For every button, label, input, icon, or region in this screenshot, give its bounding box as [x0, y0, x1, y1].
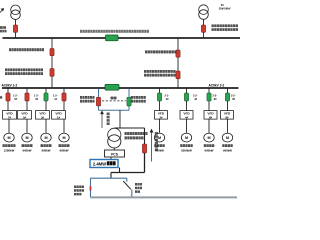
svg-text:2-2-: 2-2- [213, 93, 218, 97]
blue stub to switch 2 [126, 178, 128, 181]
VFD box 5# [18, 111, 32, 120]
wire between left incomer breakers [51, 56, 53, 69]
motor M 1# [59, 133, 69, 142]
wire breaker to VFD 5# [26, 101, 28, 111]
bus AC6kV 1-2 [2, 87, 105, 89]
wire right incomer to bus 2-2 [177, 79, 179, 88]
svg-text:1#: 1# [57, 115, 61, 119]
svg-text:7#: 7# [8, 115, 12, 119]
black drop to blue loop [110, 173, 112, 179]
VFD box 6# [204, 111, 217, 120]
svg-text:M: M [158, 136, 161, 140]
svg-text:1-2-: 1-2- [13, 93, 18, 97]
bypass breaker (red) on blue riser [96, 97, 100, 106]
wire breaker to VFD 4# [186, 101, 188, 111]
feeder breaker 2-2-6# [207, 93, 211, 101]
35kV bus tie switch (green) [106, 35, 119, 41]
svg-text:M: M [44, 136, 47, 140]
svg-text:900kW: 900kW [223, 148, 232, 152]
svg-text:AC6kV 1-2: AC6kV 1-2 [2, 84, 18, 88]
feeder breaker 2-2-8# [225, 93, 229, 101]
transformer T2 (2# 35kV/6kV) [199, 5, 209, 19]
wire 35kV bus to left incomer breaker A [51, 38, 53, 49]
wire bus to feeder breaker 8# [227, 88, 229, 93]
wire PCS to battery [110, 157, 112, 160]
svg-text:1-2-: 1-2- [34, 93, 39, 97]
motor M 8# [222, 133, 232, 142]
motor label 4# line1 [180, 144, 193, 147]
motor label 1# line1 [59, 144, 70, 147]
label text left of T1 breaker line2 [0, 30, 7, 33]
svg-text:2.4MW: 2.4MW [93, 162, 106, 167]
blue riser to bus 2-2 [128, 89, 130, 97]
blue riser below red bypass breaker [98, 106, 100, 110]
text: source of left incomer (6kV) [9, 48, 44, 51]
wire bus to feeder breaker 6# [208, 88, 210, 93]
battery string breaker (red) [142, 144, 146, 153]
up arrow (discharge direction) [150, 129, 153, 161]
cut-off feeder label at left edge [0, 96, 2, 98]
wire bus to feeder breaker 4# [186, 88, 188, 93]
switch2 label line1 [135, 183, 142, 186]
breaker left incomer A [50, 49, 54, 56]
wire VFD 5# to motor [26, 119, 28, 133]
svg-text:900kW: 900kW [204, 148, 213, 152]
svg-text:900kW: 900kW [41, 148, 50, 152]
svg-text:2#: 2# [159, 115, 163, 119]
wire breaker to VFD 8# [227, 101, 229, 111]
svg-text:M: M [207, 136, 210, 140]
battery box bottom terminal wire [119, 168, 121, 173]
annotation right of T2 breaker line2 [212, 28, 239, 31]
svg-text:1-2-: 1-2- [53, 93, 58, 97]
breaker left incomer B [50, 69, 54, 77]
svg-text:M: M [226, 136, 229, 140]
wire T2 breaker to 35kV bus [203, 32, 205, 38]
wire T1 breaker to 35kV bus [15, 32, 17, 38]
switch2 label line2 [135, 187, 142, 190]
annotation above 35kV bus tie [80, 30, 149, 33]
motor M 7# [4, 133, 14, 142]
svg-text:PCS: PCS [111, 152, 119, 156]
T3 annotation line1 [125, 132, 148, 135]
motor M 4# [181, 133, 191, 142]
breaker right incomer A [176, 50, 180, 57]
bottom return line [91, 196, 238, 198]
label text left of T1 breaker line1 [0, 26, 6, 29]
wire breaker to VFD 6# [208, 101, 210, 111]
wire between right incomer breakers [177, 57, 179, 71]
blue loop top edge [91, 177, 127, 179]
feeder breaker 1-2-1# [62, 93, 66, 101]
dashed tie indication [102, 100, 126, 102]
bottom horizontal black wire [111, 172, 145, 174]
wire junction horizontal [114, 127, 144, 129]
motor M 2# [154, 133, 164, 142]
blue bottom link of bypass [99, 109, 130, 111]
svg-text:M: M [25, 136, 28, 140]
annotation right of T2 breaker line1 [212, 24, 239, 27]
battery box 2.4MW [90, 160, 118, 168]
bypass breaker (green) on blue riser [127, 97, 131, 106]
wire VFD 2# to motor [159, 119, 161, 133]
wire bus to feeder breaker 3# [45, 88, 47, 93]
svg-text:2-2-: 2-2- [193, 93, 198, 97]
tie text above dashes [111, 97, 117, 100]
VFD box 7# [3, 111, 17, 120]
svg-text:AC6kV 2-2: AC6kV 2-2 [209, 84, 225, 88]
disconnect switch 1 (red mark) [90, 186, 92, 190]
wire VFD 8# to motor [227, 119, 229, 133]
wire breaker to VFD 1# [63, 101, 65, 111]
wire 35kV bus to right incomer breaker A [177, 38, 179, 50]
wire T2 to breaker [203, 19, 205, 25]
svg-text:M: M [7, 136, 10, 140]
disconnect switch 2 blade [123, 181, 131, 189]
motor label 2# line1 [154, 144, 165, 147]
svg-text:2-2-: 2-2- [231, 93, 236, 97]
svg-text:1280kW: 1280kW [4, 148, 15, 152]
wire breaker to VFD 7# [7, 101, 9, 111]
6kV bus tie switch (green) [105, 84, 119, 90]
wire bus to feeder breaker 1# [63, 88, 65, 93]
annotation right of green bypass breaker line2 [131, 100, 146, 103]
VFD box 8# [221, 111, 234, 120]
wire bus to feeder breaker 7# [7, 88, 9, 93]
wire breaker to VFD 3# [45, 101, 47, 111]
wire VFD 4# to motor [186, 119, 188, 133]
motor M 5# [22, 133, 32, 142]
breaker right incomer B [176, 71, 180, 79]
svg-text:900kW: 900kW [59, 148, 68, 152]
text: right incomer note line2 [144, 74, 176, 77]
wire breaker to VFD 2# [159, 101, 161, 111]
wire bus to feeder breaker 2# [159, 88, 161, 93]
svg-text:2#: 2# [221, 3, 224, 7]
VFD box 1# [52, 111, 66, 120]
wire VFD 1# to motor [63, 119, 65, 133]
feeder breaker 1-2-5# [25, 93, 29, 101]
transformer T1 (1# 35kV main) [11, 5, 21, 20]
feeder breaker 2-2-2# [157, 93, 161, 101]
vertical text beside discharge arrow [155, 132, 158, 151]
motor label 6# line1 [204, 144, 215, 147]
VFD box 4# [180, 111, 193, 120]
battery box CJK chars [107, 161, 116, 165]
bus AC6kV 2-2 [119, 87, 239, 89]
text: right incomer note line1 [144, 70, 176, 73]
battery string wire to bottom [144, 153, 146, 173]
feeder breaker 2-2-4# [184, 93, 188, 101]
wire VFD 6# to motor [208, 119, 210, 133]
motor label 3# line1 [41, 144, 52, 147]
wire bus to feeder breaker 5# [26, 88, 28, 93]
breaker QF-T2 (2# incoming) [201, 25, 205, 32]
svg-text:6#: 6# [209, 115, 213, 119]
blue riser from bus 1-2 [98, 89, 100, 97]
motor M 3# [41, 133, 51, 142]
VFD box 3# [36, 111, 50, 120]
wire bypass to battery branch junction [119, 110, 121, 128]
svg-text:M: M [185, 136, 188, 140]
svg-text:35kV/6kV: 35kV/6kV [219, 7, 231, 11]
switch1 label line2 [74, 189, 84, 192]
blue loop left edge [90, 178, 92, 197]
T3 annotation line2 [125, 136, 144, 139]
PCS converter box [105, 150, 125, 157]
feeder breaker 1-2-3# [44, 93, 48, 101]
wire left incomer to bus 1-2 [51, 76, 53, 88]
feeder breaker 1-2-7# [6, 93, 10, 101]
annotation left of red bypass breaker line1 [80, 96, 94, 99]
wire T3 to PCS [113, 148, 115, 150]
svg-text:6300kW: 6300kW [181, 148, 192, 152]
svg-text:4#: 4# [185, 115, 189, 119]
motor label 7# line1 [3, 144, 16, 147]
blue riser below green bypass breaker [128, 106, 130, 110]
35kV bus [3, 37, 241, 39]
motor M 6# [204, 133, 214, 142]
annotation right of green bypass breaker line1 [131, 96, 146, 99]
transformer T3 (6/0.4kV battery) [108, 128, 121, 148]
svg-text:2-1-: 2-1- [165, 93, 170, 97]
svg-text:M: M [62, 136, 65, 140]
vertical text beside charge arrow [107, 113, 110, 126]
wire VFD 3# to motor [45, 119, 47, 133]
wire T1 to breaker [15, 19, 17, 25]
svg-text:900kW: 900kW [22, 148, 31, 152]
motor label 5# line1 [22, 144, 33, 147]
text: source of right incomer (6kV) [145, 50, 177, 53]
battery string wire down [144, 128, 146, 144]
text: left incomer note line2 [5, 72, 43, 75]
motor label 8# line1 [222, 144, 233, 147]
text: left incomer note line1 [5, 68, 43, 71]
annotation left of red bypass breaker line2 [80, 100, 94, 103]
svg-text:3#: 3# [41, 115, 45, 119]
up arrow (charge direction) [101, 111, 104, 128]
annotation arrow top-left [0, 9, 4, 13]
switch2 label line3 [135, 190, 140, 193]
VFD box 2# [155, 111, 168, 120]
wire VFD 7# to motor [8, 119, 10, 133]
breaker QF-T1 (1# incoming) [13, 25, 17, 32]
blue stub below switch 2 [131, 190, 133, 198]
switch1 label line1 [74, 186, 84, 189]
switch1 label line3 [74, 193, 82, 196]
svg-text:5#: 5# [23, 115, 27, 119]
svg-text:8#: 8# [225, 115, 229, 119]
